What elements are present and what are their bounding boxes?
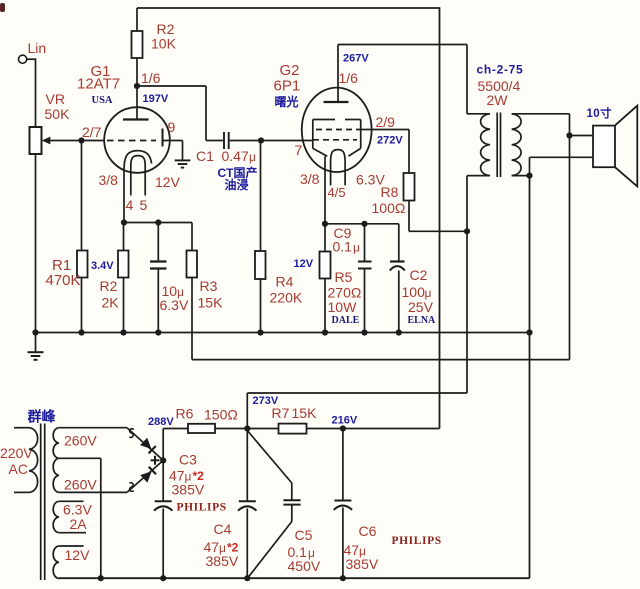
label 10cun — [587, 106, 613, 120]
label R3 — [200, 278, 218, 294]
wire C5 bottom diagonal — [248, 505, 291, 578]
label 2A — [70, 516, 88, 532]
label 1/6 G1 — [141, 70, 161, 86]
label 47u C6 — [344, 542, 367, 558]
svg-text:μ: μ — [249, 150, 256, 164]
T2 primary wires — [14, 428, 29, 493]
label 385V C3 — [172, 482, 205, 498]
wire R1 top — [81, 141, 83, 251]
label VR — [46, 91, 65, 107]
label USA — [92, 95, 113, 106]
svg-text:10W: 10W — [328, 299, 358, 315]
wire R5 top — [324, 224, 326, 252]
svg-text:AC: AC — [9, 461, 28, 477]
label C9 — [334, 225, 352, 241]
ground symbol main — [28, 352, 44, 360]
svg-text:PHILIPS: PHILIPS — [392, 535, 442, 547]
label C6 — [359, 523, 377, 539]
svg-text:6.3V: 6.3V — [160, 297, 189, 313]
node R4 ground dot — [257, 329, 263, 335]
label 272V — [377, 135, 403, 147]
capacitor C6 plates — [334, 501, 352, 510]
node rectifier output dot — [160, 457, 166, 463]
label 220V — [0, 445, 33, 461]
label R7 — [272, 405, 290, 421]
label 450V — [288, 558, 321, 574]
node speaker top dot — [566, 132, 572, 138]
label 100ohm — [372, 200, 406, 216]
svg-text:12AT7: 12AT7 — [77, 76, 120, 93]
svg-text:VR: VR — [46, 91, 65, 107]
svg-text:C6: C6 — [359, 523, 377, 539]
wire to speaker plus — [570, 135, 594, 137]
node R1 ground dot — [78, 329, 84, 335]
svg-text:ch-2-75: ch-2-75 — [477, 63, 524, 77]
label 10K — [151, 36, 177, 52]
label 7 pin — [295, 142, 303, 158]
svg-text:2W: 2W — [487, 92, 509, 108]
wire G1 grid to junction — [82, 140, 105, 142]
label 4 — [126, 197, 134, 213]
svg-text:470K: 470K — [46, 272, 81, 289]
label 0.1u C9 — [333, 239, 361, 255]
wire R3 top — [191, 223, 193, 251]
wire R2k top — [123, 223, 125, 251]
wire input to VR top — [27, 58, 36, 127]
svg-text:C2: C2 — [410, 267, 428, 283]
wire cap10 bottom lead — [157, 269, 159, 333]
resistor R2 10K body — [132, 31, 143, 58]
capacitor C3 plates — [154, 501, 172, 510]
wire C2 top lead — [398, 224, 400, 262]
label 15K R7 — [292, 405, 318, 421]
T2 260V-2 bottom wire — [59, 491, 127, 493]
wire R5 bottom — [324, 279, 326, 333]
potentiometer VR body — [30, 127, 42, 154]
node cathode dot — [121, 219, 127, 225]
svg-text:260V: 260V — [64, 477, 97, 493]
label 3.4V — [91, 260, 114, 272]
G2 anode plate bar — [324, 101, 349, 103]
label C1 — [196, 148, 214, 164]
svg-text:1/6: 1/6 — [339, 70, 359, 86]
squiggle bottom — [129, 483, 134, 492]
svg-text:7: 7 — [295, 142, 303, 158]
wire R7 to 216V node — [307, 428, 440, 430]
svg-text:R2: R2 — [100, 278, 118, 294]
svg-text:3/8: 3/8 — [300, 171, 320, 187]
label 12AT7 — [77, 76, 120, 93]
node R8 Bplus dot — [464, 228, 470, 234]
svg-text:Lin: Lin — [28, 40, 47, 56]
label 3/8 G2 — [300, 171, 320, 187]
svg-text:260V: 260V — [64, 433, 97, 449]
transformer T1 secondary coil — [512, 114, 521, 176]
G1 grid dashed line — [107, 140, 156, 142]
label 15K — [198, 295, 224, 311]
label R8 — [381, 184, 399, 200]
G2 screen grid dashed — [316, 129, 357, 131]
T2 260V-1 coil — [53, 428, 59, 459]
label 6.3V cap — [160, 297, 189, 313]
node Lin input terminal circle — [19, 55, 27, 63]
wire R1 bottom — [81, 278, 83, 333]
svg-text:μ: μ — [353, 241, 360, 255]
wire C6 bottom lead — [342, 508, 344, 579]
node C2 ground dot — [396, 329, 402, 335]
wire C2 bottom lead — [398, 271, 400, 333]
label DALE — [332, 315, 360, 326]
label 470K — [46, 272, 81, 289]
T2 6.3V coil — [53, 501, 59, 532]
G2 control grid dashed — [313, 139, 357, 141]
capacitor C2 plates — [390, 262, 405, 271]
wire diode branch top — [127, 428, 163, 461]
wire primary top — [467, 113, 490, 115]
resistor R6 150ohm body — [188, 424, 215, 433]
wire R2 bottom to G1 anode — [136, 58, 138, 120]
svg-text:2/9: 2/9 — [376, 114, 396, 130]
label 12V heater — [155, 174, 181, 190]
label 2/9 — [376, 114, 396, 130]
T2 260V-2 coil — [53, 458, 59, 492]
wire C4 top lead — [246, 429, 248, 502]
label 273V — [253, 395, 279, 407]
label 2K — [102, 295, 120, 311]
transformer T1 core — [497, 113, 500, 178]
diode D2 — [140, 467, 156, 483]
label 6.3V G2 — [356, 172, 385, 188]
label 10W — [328, 299, 358, 315]
svg-text:2/7: 2/7 — [82, 124, 102, 140]
svg-text:197V: 197V — [143, 93, 169, 105]
svg-text:4: 4 — [126, 197, 134, 213]
svg-text:5: 5 — [140, 197, 148, 213]
wire 267V line — [338, 45, 467, 114]
svg-text:15K: 15K — [292, 405, 318, 421]
svg-text:μ: μ — [425, 286, 432, 300]
svg-text:220K: 220K — [270, 290, 303, 306]
svg-text:C1: C1 — [196, 148, 214, 164]
label 6P1 — [274, 78, 301, 95]
label 0.47u — [222, 148, 257, 164]
node C9 top dot — [361, 221, 367, 227]
svg-text:2A: 2A — [70, 516, 88, 532]
wire secondary bottom — [512, 175, 530, 177]
wire top rail — [137, 7, 440, 9]
svg-text:25V: 25V — [408, 299, 434, 315]
label 385V C4 — [206, 553, 239, 569]
tube G2 envelope ellipse — [302, 88, 372, 172]
svg-text:50K: 50K — [45, 106, 71, 122]
label 2W — [487, 92, 509, 108]
T2 centertap wire — [59, 458, 101, 578]
transformer T1 primary coil — [481, 114, 490, 176]
diode D1 — [140, 438, 156, 454]
transformer T2 core — [41, 424, 45, 581]
node R5 ground dot — [322, 329, 328, 335]
svg-text:385V: 385V — [206, 553, 239, 569]
plus symbol — [151, 456, 160, 465]
svg-text:12V: 12V — [294, 258, 314, 270]
label 385V C6 — [346, 556, 379, 572]
svg-text:1/6: 1/6 — [141, 70, 161, 86]
wire R2 top — [136, 8, 138, 31]
svg-text:216V: 216V — [332, 415, 358, 427]
node C3 ground dot — [160, 575, 166, 581]
G1 anode plate bar — [123, 118, 149, 120]
svg-text:R3: R3 — [200, 278, 218, 294]
wire main ground bus — [36, 332, 530, 334]
svg-text:ELNA: ELNA — [408, 315, 437, 326]
svg-text:15K: 15K — [198, 295, 224, 311]
node grid junction dot — [78, 137, 84, 143]
node G2 grid junction dot — [258, 137, 264, 143]
svg-text:曙光: 曙光 — [275, 94, 299, 109]
label 25V — [408, 299, 434, 315]
label 5 — [140, 197, 148, 213]
wire C5 top diagonal — [247, 431, 291, 501]
wire R6 to 273V node — [215, 428, 279, 430]
svg-text:6P1: 6P1 — [274, 78, 301, 95]
svg-text:10寸: 10寸 — [587, 106, 613, 120]
resistor R2 2K body — [118, 251, 129, 278]
node G2 cathode dot — [322, 221, 328, 227]
svg-text:3/8: 3/8 — [99, 172, 119, 188]
svg-text:267V: 267V — [343, 53, 369, 65]
wire feedback line — [192, 359, 570, 361]
label 47u*2 C3 — [169, 468, 204, 484]
label 260V-2 — [64, 477, 97, 493]
wiper arrowhead — [42, 137, 51, 145]
wire secondary top — [512, 114, 570, 360]
svg-text:C5: C5 — [295, 527, 313, 543]
label 2/7 — [82, 124, 102, 140]
capacitor C5 plates — [283, 500, 300, 504]
capacitor 10u plates — [150, 262, 167, 269]
label 216V — [332, 415, 358, 427]
svg-text:R5: R5 — [335, 269, 353, 285]
wire C6 top lead — [342, 429, 344, 501]
label Lin — [28, 40, 47, 56]
label qunfeng — [27, 409, 57, 425]
capacitor C4 plates — [238, 501, 257, 510]
wire rectifier to 288V — [162, 429, 164, 461]
label R6 — [176, 406, 194, 422]
transformer T2 primary coil — [29, 428, 38, 493]
svg-text:2K: 2K — [102, 295, 120, 311]
svg-text:450V: 450V — [288, 558, 321, 574]
svg-text:0.1: 0.1 — [333, 239, 353, 255]
wire C3 bottom lead — [162, 509, 164, 579]
wire speaker return up — [530, 157, 594, 175]
wire VR bottom to ground bus — [35, 154, 37, 333]
wire C4 bottom lead — [246, 509, 248, 579]
label C3 — [179, 452, 197, 468]
node C9 ground dot — [361, 329, 367, 335]
svg-text:9: 9 — [168, 119, 176, 135]
resistor R1 470K body — [77, 251, 88, 278]
label 50K — [45, 106, 71, 122]
label 12V winding — [65, 547, 91, 563]
wire R4 top — [260, 141, 262, 252]
wire R4 bottom — [260, 279, 262, 333]
resistor R7 15K body — [279, 424, 307, 434]
svg-text:12V: 12V — [65, 547, 91, 563]
label C5 — [295, 527, 313, 543]
node G1 anode junction dot — [134, 83, 140, 89]
svg-text:USA: USA — [92, 95, 113, 106]
svg-text:12V: 12V — [155, 174, 181, 190]
wire R3 bottom to NFB — [191, 278, 193, 360]
label R2 — [157, 21, 175, 37]
wire PSU ground rail — [59, 577, 530, 579]
label ELNA — [408, 315, 437, 326]
label G2 — [280, 62, 300, 79]
svg-text:R6: R6 — [176, 406, 194, 422]
svg-text:R8: R8 — [381, 184, 399, 200]
node C4 ground dot — [244, 575, 250, 581]
tube G1 envelope circle — [104, 107, 170, 173]
svg-text:10K: 10K — [151, 36, 177, 52]
svg-text:100: 100 — [402, 284, 426, 300]
label 100u C2 — [402, 284, 432, 300]
resistor R4 220K body — [255, 251, 266, 279]
svg-text:385V: 385V — [346, 556, 379, 572]
wire C9 top lead — [364, 224, 366, 262]
node 273V dot — [244, 425, 250, 431]
wire pin9 to ground — [164, 141, 183, 161]
svg-text:R4: R4 — [276, 274, 294, 290]
wire C3 top lead — [162, 460, 164, 501]
label R2 cathode — [100, 278, 118, 294]
G1 internal shield bar pin9 — [162, 129, 164, 147]
G1 cathode arc — [124, 151, 152, 223]
wire cathode bus G2 — [325, 223, 399, 225]
svg-text:4/5: 4/5 — [328, 185, 346, 200]
T2 6.3V wires — [59, 501, 86, 532]
wire cap10 top lead — [157, 223, 159, 262]
wire VR wiper arm — [48, 140, 82, 142]
wire G2 cathode — [324, 156, 326, 224]
wire primary bottom — [467, 176, 490, 393]
wire anode to C1 — [137, 86, 223, 141]
wire R8 bottom to primary — [409, 201, 467, 232]
node C6 ground dot — [340, 575, 346, 581]
label R1 — [52, 257, 71, 274]
label 260V-1 — [64, 433, 97, 449]
G1 heater loop — [131, 156, 145, 196]
T2 260V-1 top wire — [59, 427, 127, 429]
speaker driver box — [593, 126, 615, 168]
label G1 — [91, 63, 111, 80]
wire cathode bus G1 — [124, 222, 192, 224]
wire 216V riser — [439, 7, 441, 428]
label 267V — [343, 53, 369, 65]
label PHILIPS C6 — [392, 535, 442, 547]
label 1/6 G2 — [339, 70, 359, 86]
label 47u*2 C4 — [204, 539, 239, 555]
label 12V cathode — [294, 258, 314, 270]
label ch-2-75 — [477, 63, 524, 77]
label 5500/4 — [478, 78, 521, 94]
label 10u — [162, 283, 185, 299]
svg-text:0.47: 0.47 — [222, 148, 249, 164]
wire C1 to G2 grid — [230, 140, 313, 142]
G2 beam shield — [313, 120, 361, 157]
label 288V — [148, 416, 174, 428]
label PHILIPS C3 — [177, 502, 227, 514]
node 216V dot — [340, 425, 346, 431]
svg-text:288V: 288V — [148, 416, 174, 428]
label 270ohm — [328, 285, 362, 301]
wire 288V to R6 — [163, 428, 188, 430]
capacitor C1 plates — [224, 132, 229, 149]
node cap10 ground dot — [155, 329, 161, 335]
T2 12V coil — [53, 546, 59, 579]
label 220K — [270, 290, 303, 306]
label 9 — [168, 119, 176, 135]
svg-text:272V: 272V — [377, 135, 403, 147]
wire C9 bottom lead — [364, 269, 366, 333]
G2 heater loop — [331, 150, 346, 186]
wire diode branch bottom — [127, 460, 163, 492]
label C4 — [214, 521, 232, 537]
wire ground stem — [35, 333, 37, 353]
resistor R3 15K body — [187, 251, 198, 278]
node speaker return ground dot — [526, 329, 532, 335]
wire screen to R8 — [357, 130, 409, 174]
svg-text:C3: C3 — [179, 452, 197, 468]
svg-text:220V: 220V — [0, 445, 33, 461]
svg-text:385V: 385V — [172, 482, 205, 498]
T2 12V top wire — [59, 545, 84, 547]
scan artifact blob top-left corner — [0, 3, 5, 12]
label R4 — [276, 274, 294, 290]
svg-text:群峰: 群峰 — [27, 409, 57, 425]
wire 273V riser — [247, 393, 467, 429]
capacitor C9 plates — [358, 262, 372, 269]
label AC — [9, 461, 28, 477]
node centertap rail dot — [98, 575, 104, 581]
node pot ground dot — [32, 329, 38, 335]
svg-text:油浸: 油浸 — [225, 177, 249, 192]
label R5 — [335, 269, 353, 285]
label 150ohm — [204, 407, 238, 423]
wire R2k bottom — [123, 278, 125, 333]
label CT guochan — [218, 165, 258, 180]
label 3/8 G1 — [99, 172, 119, 188]
svg-text:3.4V: 3.4V — [91, 260, 114, 272]
wire speaker return down — [529, 176, 531, 579]
resistor R8 100ohm body — [404, 173, 415, 201]
svg-text:PHILIPS: PHILIPS — [177, 502, 227, 514]
svg-text:C4: C4 — [214, 521, 232, 537]
label youjin — [225, 177, 249, 192]
ground symbol pin9 — [175, 160, 191, 167]
node secondary bottom dot — [526, 173, 532, 179]
speaker horn — [615, 106, 637, 187]
squiggle top — [129, 429, 134, 438]
svg-text:DALE: DALE — [332, 315, 360, 326]
svg-text:R7: R7 — [272, 405, 290, 421]
wire G2 anode riser — [337, 45, 339, 103]
label 197V — [143, 93, 169, 105]
node cap10 top dot — [155, 219, 161, 225]
node R2k ground dot — [120, 329, 126, 335]
svg-text:100Ω: 100Ω — [372, 200, 406, 216]
label C2 — [410, 267, 428, 283]
